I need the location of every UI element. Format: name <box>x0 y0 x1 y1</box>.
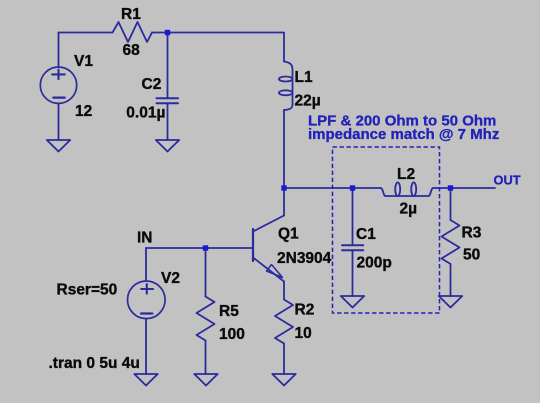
inductor L2 exit <box>429 188 434 196</box>
dashed LPF boundary box <box>333 147 440 313</box>
inductor L2 entry <box>381 188 386 196</box>
svg-text:L2: L2 <box>397 166 415 183</box>
svg-text:50: 50 <box>463 247 480 264</box>
svg-text:100: 100 <box>219 326 245 343</box>
wire: main output rail <box>284 187 381 189</box>
junction: base/R5 node <box>203 245 208 250</box>
resistor R5 body <box>197 297 215 341</box>
ground below R3 <box>439 296 462 308</box>
junction: C1 node <box>350 185 355 190</box>
ground below R5 <box>194 374 217 386</box>
inductor L1 loop 1 <box>279 77 293 82</box>
transistor Q1 base bar <box>252 229 254 261</box>
inductor L2 loop 1 <box>395 182 400 196</box>
capacitor C2 top plate <box>157 97 179 99</box>
transistor Q1 emitter diagonal <box>253 258 284 282</box>
voltage source V1 circle <box>40 67 76 103</box>
junction: R3/OUT node <box>448 185 453 190</box>
wire: C2 tap from top rail <box>167 33 169 98</box>
transistor Q1 collector diagonal <box>253 216 284 232</box>
ground below V1 <box>47 140 70 152</box>
wire: emitter vertical to R2 <box>283 282 285 300</box>
capacitor C1 bottom plate <box>342 249 363 251</box>
svg-text:C2: C2 <box>142 76 162 93</box>
svg-text:Q1: Q1 <box>278 226 299 243</box>
inductor L2 body baseline <box>386 195 429 197</box>
svg-text:2µ: 2µ <box>400 201 418 218</box>
svg-text:.tran 0 5u 4u: .tran 0 5u 4u <box>49 355 140 372</box>
wire: C1 tap down <box>352 188 354 244</box>
wire: R2 to ground <box>283 344 285 375</box>
svg-text:R5: R5 <box>219 303 239 320</box>
V1 plus sign <box>52 70 65 80</box>
inductor L2 loop 2 <box>411 182 416 196</box>
wire: V1 bottom to ground <box>58 103 60 140</box>
svg-text:V2: V2 <box>161 270 180 287</box>
wire: IN rail to Q1 base <box>146 247 252 249</box>
ground below V2 <box>134 374 157 386</box>
junction: R1/C2 node <box>165 30 170 35</box>
wire: R3 tap down <box>450 188 452 220</box>
svg-text:OUT: OUT <box>494 173 521 188</box>
svg-text:0.01µ: 0.01µ <box>126 105 165 122</box>
svg-text:Rser=50: Rser=50 <box>57 282 118 299</box>
wire: R1 to L1 corner top rail <box>152 33 284 62</box>
wire: C1 bottom to ground <box>352 250 354 296</box>
wire: C2 bottom to ground <box>167 103 169 140</box>
wire: R5 tap down from base rail <box>205 248 207 297</box>
inductor L1 loop 2 <box>279 90 293 95</box>
ground below C2 <box>156 140 179 152</box>
svg-text:200p: 200p <box>357 255 392 272</box>
wire: IN corner down to V2 <box>145 248 147 281</box>
V2 plus sign <box>141 284 153 293</box>
svg-text:R1: R1 <box>121 6 141 23</box>
V2 minus sign <box>141 312 152 314</box>
wire: R3 to ground <box>450 264 452 296</box>
ground below R2 <box>272 374 295 386</box>
svg-text:C1: C1 <box>356 226 376 243</box>
wire: L1 bottom to collector node <box>283 110 285 188</box>
resistor R2 body <box>275 300 293 344</box>
wire: collector vertical <box>283 188 285 216</box>
transistor Q1 emitter arrow <box>267 265 283 278</box>
svg-text:IN: IN <box>137 230 153 247</box>
wire: R5 to ground <box>205 341 207 375</box>
wire: top rail left segment to R1 <box>59 32 113 34</box>
junction: collector node <box>281 185 286 190</box>
svg-text:V1: V1 <box>74 53 93 70</box>
ground below C1 <box>341 296 364 308</box>
capacitor C2 bottom plate <box>157 102 179 104</box>
svg-text:2N3904: 2N3904 <box>277 250 332 267</box>
svg-text:impedance match @ 7 Mhz: impedance match @ 7 Mhz <box>308 126 499 143</box>
V1 minus sign <box>53 96 64 98</box>
resistor R3 body <box>442 220 460 264</box>
wire: V1 top up to top rail <box>58 33 60 68</box>
voltage source V2 circle <box>128 281 166 319</box>
wire: L2 to R3 node to OUT <box>433 187 495 189</box>
resistor R1 body <box>113 22 153 42</box>
wire: V2 bottom to ground <box>145 318 147 374</box>
capacitor C1 top plate <box>342 244 363 246</box>
svg-text:68: 68 <box>123 42 141 59</box>
svg-text:10: 10 <box>295 325 312 342</box>
svg-text:R3: R3 <box>462 225 482 242</box>
svg-text:22µ: 22µ <box>295 93 321 110</box>
svg-text:L1: L1 <box>295 69 313 86</box>
inductor L1 body <box>284 62 293 111</box>
svg-text:12: 12 <box>75 103 92 120</box>
svg-text:R2: R2 <box>295 302 315 319</box>
